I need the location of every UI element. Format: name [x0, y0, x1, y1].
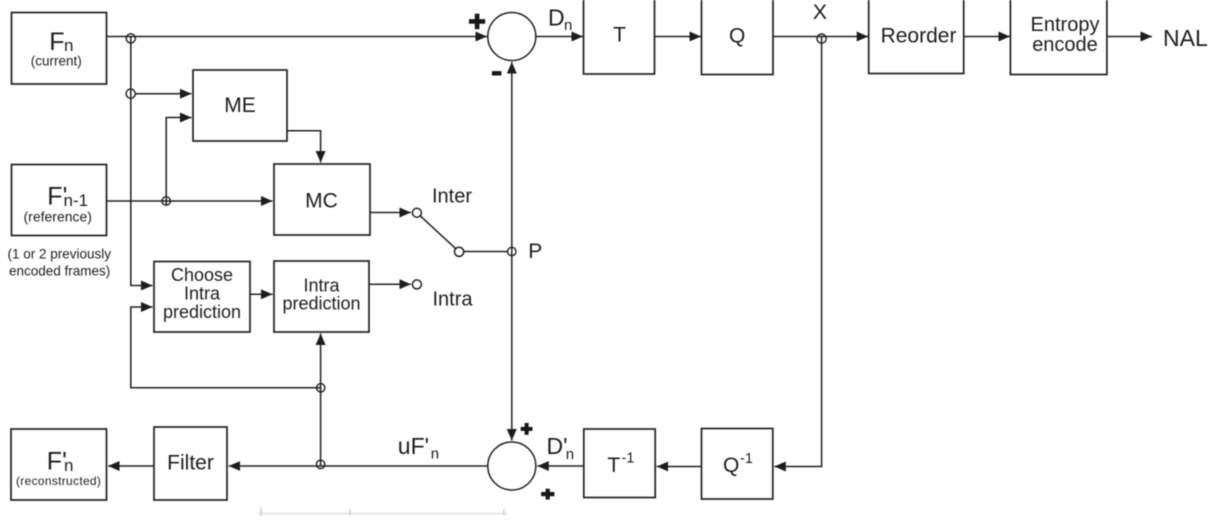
- svg-text:Intra: Intra: [303, 275, 340, 295]
- node on uF'n rail: [316, 460, 324, 468]
- svg-text:Choose: Choose: [171, 265, 233, 285]
- wire MC to Inter switch contact: [370, 212, 411, 214]
- switch contact Inter: [412, 208, 421, 217]
- block T inverse: [584, 429, 655, 498]
- svg-text:T: T: [607, 454, 620, 477]
- sign minus top adder: [492, 71, 502, 75]
- svg-text:D': D': [547, 433, 568, 459]
- wire reconstruction feedback to Choose Intra input 2: [131, 307, 321, 388]
- svg-text:P: P: [528, 240, 542, 263]
- svg-text:MC: MC: [305, 190, 338, 213]
- svg-text:n-1: n-1: [64, 191, 89, 210]
- wire Reorder to Entropy encode: [964, 36, 1010, 38]
- svg-text:encoded frames): encoded frames): [9, 263, 110, 278]
- svg-text:n: n: [566, 446, 574, 463]
- block T: [584, 0, 655, 74]
- wire Filter to F'n: [108, 465, 154, 467]
- adder top (subtractor): [488, 13, 536, 61]
- svg-text:X: X: [813, 0, 827, 24]
- svg-text:Intra: Intra: [184, 283, 221, 303]
- svg-text:(current): (current): [31, 53, 82, 68]
- wire switch arm diagonal: [420, 216, 456, 249]
- block Reorder: [869, 0, 964, 74]
- block MC: [274, 164, 370, 235]
- scan artifact faint line bottom: [258, 508, 507, 517]
- svg-text:Intra: Intra: [433, 288, 474, 310]
- block Q: [702, 0, 774, 75]
- wire Choose Intra to Intra prediction: [250, 293, 273, 295]
- svg-text:encode: encode: [1032, 34, 1098, 56]
- wire P line up into top adder minus input: [511, 62, 513, 252]
- sign plus top adder: [469, 14, 485, 30]
- node P: [508, 247, 516, 255]
- wire T to Q: [655, 36, 702, 38]
- svg-text:-1: -1: [740, 451, 753, 467]
- wire Q to Reorder: [773, 36, 868, 38]
- svg-text:Filter: Filter: [167, 452, 214, 475]
- wire bottom adder to Filter: [229, 465, 488, 467]
- block F'n-1 (reference): [12, 165, 107, 236]
- svg-text:Entropy: Entropy: [1031, 14, 1100, 36]
- svg-text:(reconstructed): (reconstructed): [16, 474, 101, 488]
- wire Entropy encode to NAL: [1107, 36, 1152, 38]
- wire Intra prediction to Intra switch contact: [369, 283, 411, 285]
- node on feedback vertical: [317, 384, 325, 392]
- svg-text:Inter: Inter: [432, 186, 472, 208]
- svg-text:uF': uF': [398, 433, 429, 459]
- adder bottom (reconstruction): [488, 442, 536, 490]
- wire Q inverse to T inverse: [657, 466, 702, 468]
- block Filter: [154, 427, 227, 500]
- svg-text:ME: ME: [224, 94, 256, 117]
- wire uF'n vertical up into Intra prediction: [320, 334, 322, 467]
- block F'n (reconstructed): [11, 429, 107, 500]
- sign plus bottom adder lower: [541, 489, 554, 500]
- svg-text:n: n: [64, 36, 73, 55]
- svg-text:(reference): (reference): [24, 209, 92, 225]
- node on F'n-1 line: [162, 197, 170, 205]
- wire X feedback to Q inverse: [774, 37, 821, 467]
- svg-text:Reorder: Reorder: [881, 25, 957, 48]
- svg-text:F: F: [49, 28, 64, 56]
- wire F'n-1 to MC: [107, 200, 273, 202]
- block Entropy encode: [1010, 0, 1107, 75]
- svg-text:(1 or 2 previously: (1 or 2 previously: [8, 247, 112, 262]
- wire node to ME input 1: [135, 93, 192, 95]
- svg-text:D: D: [548, 5, 565, 31]
- block Q inverse: [702, 429, 773, 500]
- block Choose Intra prediction: [154, 262, 250, 333]
- svg-text:-1: -1: [622, 451, 635, 467]
- switch pivot: [455, 247, 464, 256]
- svg-text:n: n: [564, 17, 572, 34]
- svg-text:n: n: [431, 446, 439, 463]
- node X: [817, 34, 826, 43]
- wire node to ME input 2: [166, 118, 191, 206]
- wire adder to T: [536, 36, 583, 38]
- svg-text:Q: Q: [723, 454, 739, 477]
- block ME: [193, 70, 287, 141]
- svg-text:Q: Q: [729, 25, 745, 48]
- wire Fn bus down to Choose Intra input 1: [131, 37, 153, 286]
- svg-text:prediction: prediction: [282, 294, 360, 314]
- wire T inverse to bottom adder: [537, 465, 584, 467]
- block Intra prediction: [274, 261, 369, 332]
- svg-text:NAL: NAL: [1163, 25, 1208, 51]
- wire switch pivot to node P: [464, 251, 508, 253]
- wire ME to MC: [287, 131, 321, 163]
- svg-text:prediction: prediction: [163, 302, 241, 322]
- block Fn (current): [12, 13, 107, 85]
- node on Fn output: [126, 34, 135, 43]
- wire P line down into bottom adder plus input: [511, 252, 513, 441]
- svg-text:T: T: [613, 24, 626, 47]
- node to ME: [126, 89, 135, 98]
- wire Fn to adder: [107, 36, 488, 38]
- sign plus bottom adder upper: [521, 423, 533, 435]
- svg-text:n: n: [64, 456, 73, 475]
- switch contact Intra: [412, 280, 421, 289]
